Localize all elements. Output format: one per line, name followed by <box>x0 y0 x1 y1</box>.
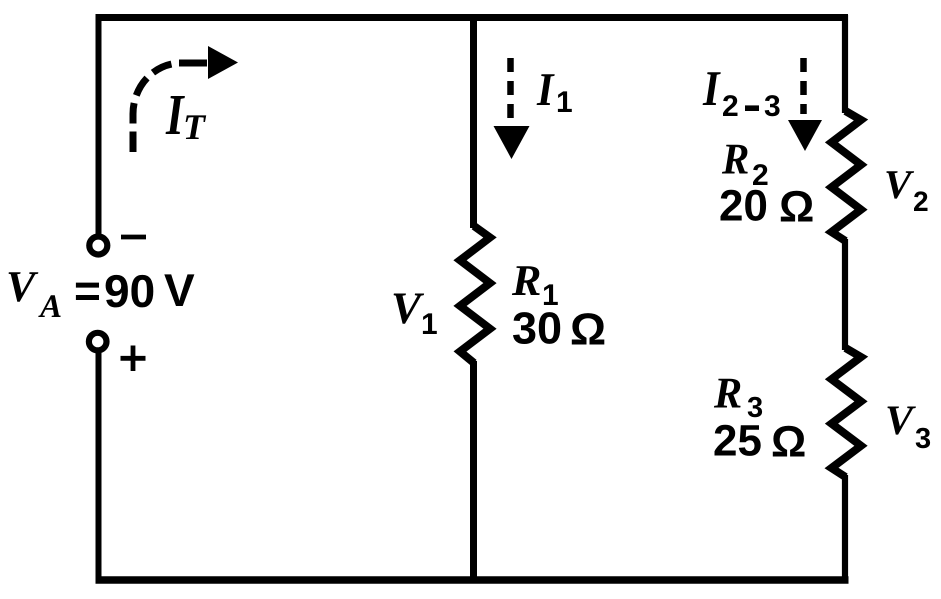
current arrow I_T head <box>208 46 238 79</box>
terminal negative of source V_A <box>89 237 107 255</box>
label R1 value 30 ohm <box>512 266 604 344</box>
wire top rail <box>96 14 849 21</box>
label plus polarity <box>121 346 146 372</box>
resistor R2 zigzag <box>832 111 862 241</box>
label V3 <box>888 407 931 449</box>
current arrow I2-3 head <box>788 120 822 151</box>
label I_T <box>166 96 207 139</box>
label minus polarity <box>121 235 146 240</box>
label V2 <box>886 171 927 211</box>
label R3 value 25 ohm <box>714 379 805 457</box>
wire left lower segment <box>96 351 102 583</box>
wire right branch lower <box>842 475 848 582</box>
label V1 <box>394 294 437 335</box>
resistor R3 zigzag <box>832 348 862 477</box>
current arrow I_T dashed curve <box>133 63 181 152</box>
label R2 value 20 ohm <box>721 145 813 222</box>
label I1 <box>537 74 572 112</box>
source label V_A = 90 V <box>9 272 195 317</box>
wire middle branch lower <box>470 361 477 582</box>
wire right branch middle <box>842 239 848 350</box>
current arrow I1 dashed line <box>507 58 514 125</box>
current arrow I2-3 dashed line <box>800 58 807 114</box>
wire bottom rail <box>96 576 849 584</box>
label I2-3 <box>703 72 780 116</box>
resistor R1 zigzag <box>460 226 490 363</box>
current arrow I1 head <box>494 126 530 159</box>
wire middle branch upper <box>470 15 477 228</box>
wire right branch upper <box>842 15 848 113</box>
terminal positive of source V_A <box>89 333 107 351</box>
wire left upper segment <box>96 15 102 234</box>
